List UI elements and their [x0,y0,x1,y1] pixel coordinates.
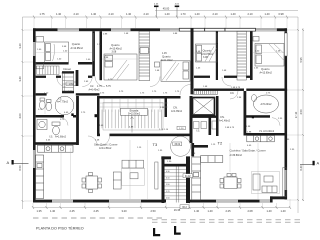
thin wall Q4 east [216,31,218,80]
door arc Q3 party [180,85,191,96]
section marker A left [7,160,29,165]
svg-text:A=7.75m2: A=7.75m2 [57,101,69,104]
svg-text:3.08: 3.08 [112,51,117,54]
stair hall walls [97,96,190,136]
right corridor walls [194,76,210,78]
svg-text:A: A [317,161,320,166]
dashed property line 3 [152,221,303,223]
bathroom right south wall [244,115,271,118]
svg-text:5.90: 5.90 [166,184,170,186]
bathroom right west wall [244,91,247,135]
svg-text:34.02: 34.02 [185,176,191,178]
svg-text:1.40: 1.40 [194,12,200,16]
bottom wall piers [33,196,287,202]
svg-text:0.98: 0.98 [278,12,284,16]
dimension line right 2 [302,28,304,201]
wall below shaft [193,116,219,118]
svg-text:Quarto: Quarto [72,42,81,46]
closet hatch band right [237,31,246,80]
wall Q1/Q2 [92,31,95,76]
wall corridor east [100,31,103,80]
svg-text:Cozinha / Sala Estar / Comer: Cozinha / Sala Estar / Comer [230,149,266,153]
svg-text:A=3.95m2: A=3.95m2 [62,72,74,75]
party wall hall jog [191,143,194,156]
top wall windows [58,29,277,31]
interior dim texts scattered [37,33,295,151]
dimension line right 1 [297,17,299,213]
svg-text:A=11.10m2: A=11.10m2 [161,59,174,62]
inner face line left wall [35,31,37,199]
right wall windows [285,170,287,190]
dimension labels bottom [36,208,286,213]
svg-text:A=4.35m2: A=4.35m2 [171,110,183,113]
svg-text:1.40: 1.40 [194,209,200,213]
extra micro dims [44,44,290,163]
black dot right [252,116,254,118]
corridor south wall [36,93,100,95]
corridor north wall [36,76,93,78]
svg-text:1.75: 1.75 [97,85,102,88]
svg-text:3.08: 3.08 [203,56,208,59]
svg-text:CN.: CN. [173,106,178,110]
svg-text:6.30: 6.30 [166,171,170,173]
party wall mid [190,96,193,143]
svg-text:36.02: 36.02 [174,144,180,146]
svg-text:1.40: 1.40 [164,12,170,16]
boxed label circle [173,142,182,146]
stair inner outline [103,103,163,131]
TV bench left [155,162,158,189]
boxed label corridor [66,82,77,86]
svg-text:4.50: 4.50 [299,109,303,115]
dashed property line 2 [152,219,303,221]
door arc Q2 [95,77,105,87]
svg-text:1.40: 1.40 [280,209,286,213]
svg-text:1.75: 1.75 [39,12,45,16]
bed Q5 rightmost [253,37,284,67]
bed Q1 [36,37,69,69]
TV bench right [283,168,286,197]
stair door arc [100,136,110,146]
left wall windows [33,42,35,168]
svg-text:A=6.40m2: A=6.40m2 [89,88,101,91]
kitchen right L counter [192,156,223,200]
svg-text:A=41.35m2: A=41.35m2 [99,147,112,150]
svg-text:6.50: 6.50 [18,165,22,171]
party wall lower [186,156,190,203]
svg-text:1.35: 1.35 [36,209,42,213]
svg-text:6.10: 6.10 [166,178,170,180]
svg-text:5.70: 5.70 [166,191,170,193]
door arc laundry [60,118,68,126]
sofa left [113,160,143,189]
svg-text:A=5.20m2: A=5.20m2 [261,103,273,106]
bed Q3 (horizontal) [155,61,191,82]
svg-text:1.40: 1.40 [91,12,97,16]
dimension extension lines top [34,18,287,28]
door arc Q1 [82,77,92,87]
kitchen divider wall [33,142,77,145]
dimension ticks left [22,29,24,202]
dimension extension lines sides [24,30,302,201]
svg-text:1.40: 1.40 [207,209,213,213]
dimension extension lines bottom [33,199,290,207]
svg-text:4.00: 4.00 [18,113,22,119]
scale mark L 1 [153,228,160,236]
black column corridor [95,114,98,117]
right wall [285,28,288,199]
svg-text:17.10: 17.10 [294,111,298,118]
svg-text:1.40: 1.40 [264,12,270,16]
svg-text:3.40: 3.40 [18,76,22,82]
rug right [252,172,280,194]
radiator comb [192,89,218,94]
svg-text:3.20: 3.20 [121,209,127,213]
stub wall closet east [76,70,79,86]
door arc bathroom [57,78,66,87]
section marker A right [300,161,320,166]
top wall outlined piers [179,28,255,31]
dimension line top [23,11,299,18]
svg-text:I.S. A=4.40m2: I.S. A=4.40m2 [259,130,275,133]
svg-text:1.40: 1.40 [50,209,56,213]
wardrobe hatch closet [37,66,59,75]
wall right of shaft [216,96,219,136]
dining table right [220,174,241,189]
door arc right corridor [230,91,238,99]
svg-text:45.00: 45.00 [163,7,170,11]
right dwelling lower mid wall [244,133,288,136]
boxed label stairs top [183,174,193,178]
kitchen counter top row left [38,145,74,152]
kitchen right top counter [247,136,274,142]
svg-text:Sala Estar | Comer: Sala Estar | Comer [94,142,118,146]
bathtub oval right [254,95,279,113]
cabinet column closet [62,71,74,93]
toilet right bathroom [251,95,256,102]
svg-text:5.50: 5.50 [166,197,170,199]
svg-text:2.50: 2.50 [150,209,156,213]
wall small rooms divider [209,116,212,136]
svg-text:CN.: CN. [230,92,234,95]
closet hatch band left [139,31,150,80]
svg-text:Closet: Closet [63,67,71,71]
bed Q4 right (vertical) [196,44,218,62]
top wall pier segments [33,28,287,31]
svg-text:1.40: 1.40 [230,12,236,16]
svg-text:2.45: 2.45 [93,209,99,213]
shaft X box [193,98,215,116]
svg-text:A=13.60m2: A=13.60m2 [260,71,273,74]
dimension line left [22,17,24,209]
left wall [33,28,36,202]
fixtures small room [194,121,217,129]
entry circle [171,136,191,156]
wall right hall [194,145,208,148]
svg-text:T2: T2 [218,141,223,146]
dashed property line 1 [33,217,162,219]
entry stairs [161,156,186,203]
svg-text:A=1.60m2: A=1.60m2 [55,136,67,139]
svg-text:1.40: 1.40 [56,12,62,16]
toilet laundry [37,120,60,135]
svg-text:16.35: 16.35 [174,208,181,212]
bottom wall windows [52,200,270,202]
light horizontal dim chains inside [36,33,284,199]
wall right Q divider [250,31,253,80]
svg-text:2.10: 2.10 [143,12,149,16]
svg-text:2.08 0.75: 2.08 0.75 [225,127,235,129]
svg-text:36.2: 36.2 [182,206,187,209]
svg-text:A=1.40m2: A=1.40m2 [219,119,231,122]
svg-text:2.10: 2.10 [73,12,79,16]
boxed label CN room [177,126,185,129]
wall laundry east [76,96,79,145]
bed Q2 (vertical) [104,54,137,80]
dimension ticks right [297,29,304,201]
door arc corridor-living [88,136,97,145]
rug sofa left [122,168,145,185]
sofa right [253,174,277,193]
door arc Q3 [150,77,160,87]
svg-text:I.S.: I.S. [196,129,200,133]
stair label box [121,108,148,115]
axis marker top 2 [175,4,180,18]
door arc right corridor 2 [222,77,231,86]
party wall upper [191,28,194,94]
svg-text:2.10: 2.10 [247,12,253,16]
svg-text:2.10: 2.10 [108,12,114,16]
dimension labels top [39,7,284,16]
svg-text:1.48 0.75: 1.48 0.75 [231,87,241,89]
svg-text:1.70: 1.70 [180,12,186,16]
svg-text:I.S.: I.S. [49,135,53,139]
shower circle [55,96,74,115]
dimension line bottom [33,207,290,209]
svg-text:2.08: 2.08 [247,209,253,213]
stair upper flight light lines [100,99,168,112]
right dwelling corridor wall [194,89,244,91]
ladder band box [140,48,149,54]
dining table left [82,173,102,193]
dimension ticks top [33,16,288,19]
stair treads [102,110,161,129]
svg-text:A=12.95m2: A=12.95m2 [71,47,84,50]
svg-text:S=13.50m2: S=13.50m2 [128,113,141,116]
dimension labels right (rotated) [294,57,303,171]
black junction dot [71,113,73,116]
scale mark L 2 [174,226,181,235]
wall below Q1 [36,62,69,65]
svg-text:5.75: 5.75 [106,85,111,88]
kitchen counter left column [36,155,44,199]
svg-text:5.95: 5.95 [299,57,303,63]
dimension ticks bottom [32,206,291,209]
boxed label bottom [180,205,189,209]
svg-text:1.40: 1.40 [126,12,132,16]
svg-text:3.20: 3.20 [18,43,22,49]
bathroom L wall [36,115,64,118]
svg-text:PLANTA DO PISO TÉRREO: PLANTA DO PISO TÉRREO [36,226,84,231]
svg-text:6.40: 6.40 [299,165,303,171]
svg-text:A: A [7,160,10,165]
stair walk arrow [131,117,133,133]
svg-text:A=39.80m2: A=39.80m2 [230,154,243,157]
interior dim lines vertical living left [45,98,258,199]
dimension labels left (rotated) [18,43,22,171]
right wall outline band [285,33,288,56]
bathroom right north wall [246,89,287,91]
svg-text:1.40: 1.40 [266,209,272,213]
door arc right bath [272,118,280,126]
svg-text:1.75 1.10: 1.75 1.10 [159,129,169,131]
svg-text:2.10: 2.10 [212,12,218,16]
axis marker top 1 [154,4,159,18]
svg-text:2.45: 2.45 [69,209,75,213]
svg-text:T3: T3 [153,142,158,147]
inner face lines top wall [36,30,287,32]
svg-text:2.25: 2.25 [225,209,231,213]
svg-text:1.45: 1.45 [162,52,167,55]
toilet bathroom1 [39,98,51,111]
